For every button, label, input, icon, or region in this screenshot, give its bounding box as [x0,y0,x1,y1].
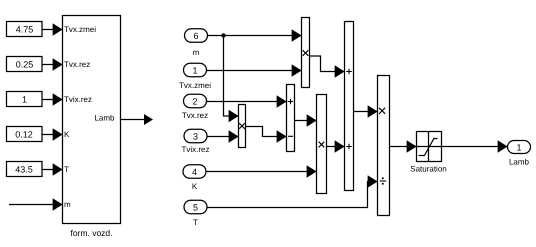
wire branch inport6 down to product E input1 [224,36,239,117]
svg-text:Saturation: Saturation [410,165,446,174]
wire inport2 to sum D input plus [207,101,287,103]
constant C4 value 0.12 [7,127,43,142]
wire inport5 to divide C divisor input [207,182,377,208]
inport 1 Tvx.zmei [179,63,211,90]
wire inport3 to product E input2 [207,136,238,138]
inport 2 Tvx.rez [182,94,208,120]
inport 4 K [183,165,206,191]
wire C5 to form.vozd T [42,169,63,171]
wire product A output to sum B input1 [310,56,345,72]
wire sum B output to divide C input [354,111,378,113]
svg-text:4.75: 4.75 [16,24,34,34]
wire C1 to form.vozd Tvx.zmei [43,29,63,31]
svg-text:0.12: 0.12 [15,129,33,139]
svg-text:6: 6 [193,31,198,41]
wire C3 to form.vozd Tvix.rez [43,99,63,101]
wire C4 to form.vozd K [42,134,63,136]
inport 6 m [185,29,208,57]
svg-text:Tvx.rez: Tvx.rez [64,60,90,69]
inport 3 Tvix.rez [182,129,210,154]
wire Saturation to outport 1 [442,146,508,148]
constant C5 value 43.5 [7,162,43,177]
divide block C [378,76,390,216]
wire product F output to sum B input2 [327,146,345,148]
wire m input to form.vozd m [9,204,62,206]
svg-text:5: 5 [193,202,198,212]
product block E [239,105,246,148]
svg-text:Tvx.rez: Tvx.rez [182,111,208,120]
svg-text:K: K [192,182,198,191]
constant C3 value 1 [7,92,43,107]
wire form.vozd output Lamb (dangling) [121,119,145,121]
svg-text:0.25: 0.25 [16,59,34,69]
svg-text:Lamb: Lamb [509,158,530,167]
svg-text:Tvix.rez: Tvix.rez [182,145,210,154]
constant C1 value 4.75 [7,22,43,37]
svg-text:1: 1 [22,94,27,104]
inport 5 T [184,200,207,227]
sum block B [345,22,354,191]
svg-text:m: m [64,200,71,209]
product block F [317,95,327,194]
svg-text:Tvx.zmei: Tvx.zmei [179,81,211,90]
wire inport1 to product A input2 [207,70,302,72]
wire inport4 to product F input2 [206,171,316,173]
svg-text:Tvix.rez: Tvix.rez [64,95,92,104]
wire sum D output to product F input1 [295,120,317,122]
svg-text:1: 1 [516,142,521,152]
svg-text:Tvx.zmei: Tvx.zmei [64,25,96,34]
svg-text:T: T [193,218,198,227]
saturation block [417,132,442,162]
svg-text:K: K [64,130,70,139]
sum block D [287,85,295,152]
outport 1 Lamb [508,141,531,167]
svg-text:3: 3 [193,131,198,141]
product block A [302,18,310,88]
constant C2 value 0.25 [7,57,43,72]
svg-text:43.5: 43.5 [15,164,33,174]
wire inport6 to product A input1 [208,35,302,37]
wire divide C output to Saturation [390,146,417,148]
svg-text:2: 2 [192,96,197,106]
subsystem block form. vozd. [63,16,121,224]
svg-text:4: 4 [192,167,197,177]
svg-text:form. vozd.: form. vozd. [70,228,112,238]
wire C2 to form.vozd Tvx.rez [43,64,63,66]
svg-text:T: T [64,165,69,174]
wire product E output to sum D minus input [246,127,287,137]
svg-text:1: 1 [192,65,197,75]
svg-text:Lamb: Lamb [94,114,115,123]
junction dot on inport6 wire [221,33,225,37]
svg-text:m: m [193,48,200,57]
